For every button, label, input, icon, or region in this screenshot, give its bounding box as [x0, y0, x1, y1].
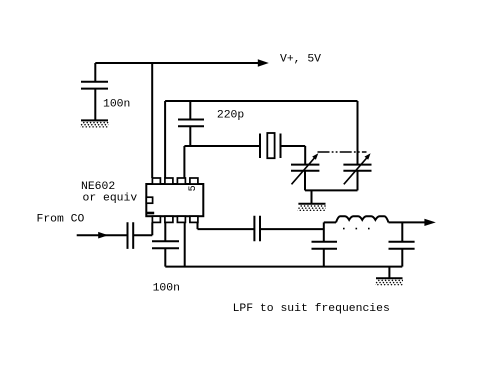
capacitor C4 100n plates: [152, 241, 179, 248]
node input arrow head: [98, 232, 108, 239]
wire from rail to C1: [94, 63, 96, 82]
wire bottom rail: [165, 266, 402, 268]
ground G2: [296, 204, 329, 211]
pin 6 bottom bump: [165, 216, 173, 222]
wire C6 to bottom rail: [323, 249, 325, 267]
node arrow V+ head: [258, 59, 269, 66]
U1 pin1 dash mark: [147, 212, 155, 215]
wire V+ rail top: [95, 62, 258, 64]
wire crystal to VC1: [281, 146, 306, 165]
wire pin 7 to bottom rail: [184, 222, 186, 266]
svg-text:100n: 100n: [153, 283, 180, 295]
node output arrow head: [424, 219, 435, 226]
wire down to pin C top: [183, 146, 185, 178]
capacitor C5 coupling: [254, 216, 260, 242]
wire rail2 horizontal: [165, 100, 357, 102]
pin 5 bottom bump: [152, 216, 160, 222]
wire LPF input node: [323, 222, 325, 241]
svg-text:LPF to suit frequencies: LPF to suit frequencies: [233, 303, 390, 315]
wire C7 to bottom rail: [401, 249, 403, 267]
wire C2 to crystal rail: [189, 126, 191, 146]
pin 4 top bump: [190, 178, 198, 184]
wire node to inductor: [324, 221, 336, 223]
wire C5 to LPF input node: [260, 228, 324, 230]
wire LPF output node: [401, 222, 403, 241]
wire inductor to output: [389, 221, 425, 223]
wire to ground G3: [388, 267, 390, 278]
inductor L1: [336, 216, 389, 228]
wire rail2 to pin B top: [164, 101, 166, 178]
svg-text:or equiv: or equiv: [83, 192, 138, 204]
wire C3 to pin 5: [133, 222, 152, 235]
op-amp U1 NE602 body: [146, 184, 203, 216]
svg-text:From CO: From CO: [37, 213, 85, 225]
capacitor C7 LPF shunt right: [389, 242, 415, 249]
capacitor C6 LPF shunt left: [312, 242, 338, 249]
svg-text:5: 5: [188, 185, 199, 191]
pin 7 bottom bump: [177, 216, 185, 222]
svg-text:100n: 100n: [103, 99, 130, 111]
svg-text:V+, 5V: V+, 5V: [280, 53, 321, 65]
capacitor C3 input coupling: [128, 222, 134, 249]
pin 1 top bump: [152, 178, 160, 184]
variable capacitor VC2: [343, 153, 371, 184]
wire rail2 to C2: [189, 101, 191, 120]
wire crystal rail: [184, 145, 260, 147]
wire VC1 bottom: [304, 171, 306, 191]
wire VC bottom bus: [305, 189, 358, 191]
variable capacitor VC1: [291, 153, 319, 184]
capacitor C2 220p plates: [178, 120, 204, 127]
wire pin 8 output: [198, 222, 255, 229]
wire rail2 down to VC2: [357, 101, 359, 165]
wire input: [77, 234, 128, 236]
wire rail to pin A top: [151, 63, 153, 178]
wire gang coupling dash-dot: [318, 151, 367, 153]
pin 3 top bump: [177, 178, 185, 184]
pin 2 top bump: [165, 178, 173, 184]
capacitor C1 100n plates: [81, 82, 108, 89]
ground G3: [374, 278, 407, 285]
wire C4 to bottom rail: [164, 248, 166, 266]
svg-text:220p: 220p: [217, 110, 245, 122]
pin 8 bottom bump: [190, 216, 198, 222]
wire C1 to ground: [94, 89, 96, 121]
crystal X1: [260, 133, 281, 158]
U1 side notch: [146, 197, 152, 203]
wire VC2 bottom: [357, 171, 359, 191]
wire pin 6 to C4: [164, 222, 166, 241]
ground below C1: [79, 120, 112, 127]
wire to ground G2: [311, 190, 313, 203]
